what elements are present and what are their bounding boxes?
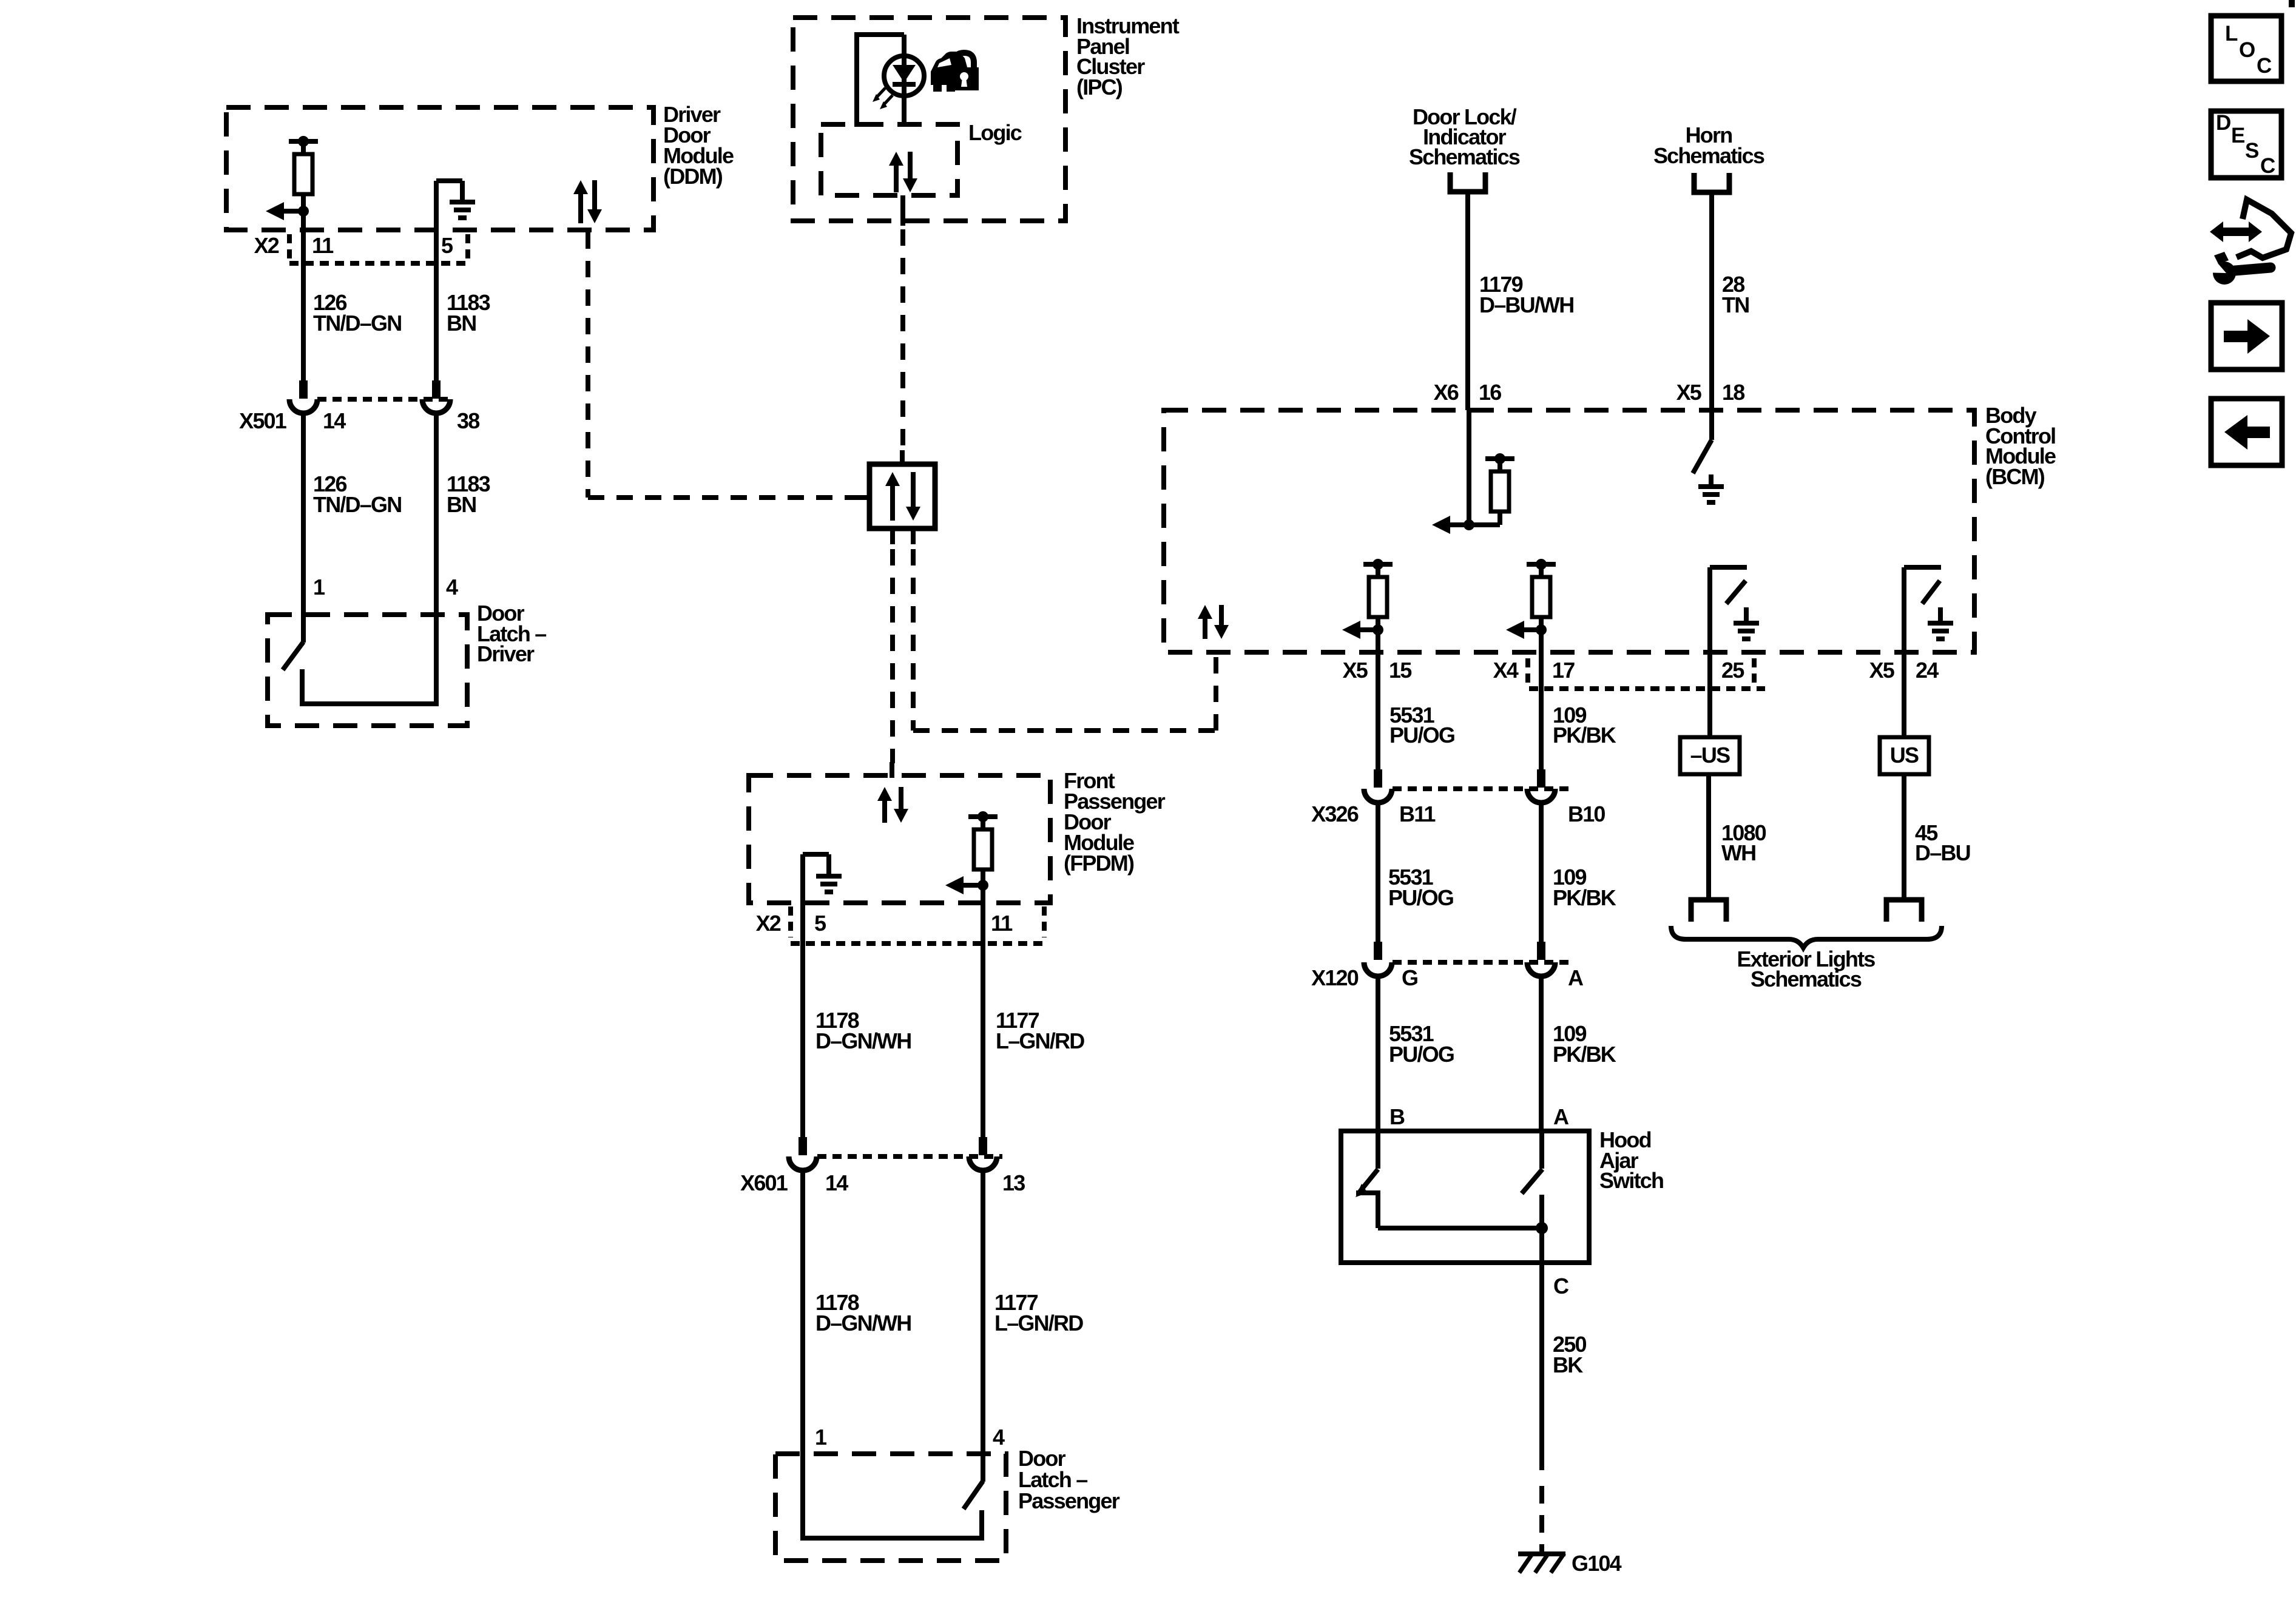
svg-text:PU/OG: PU/OG [1388, 885, 1453, 910]
junction dot FPDM [977, 880, 988, 891]
svg-text:4: 4 [446, 575, 458, 599]
connector X120 dotted mating line [1393, 960, 1574, 965]
car with lock indicator icon [931, 52, 968, 85]
serial data arrows in DDM [573, 180, 588, 194]
svg-text:BN: BN [447, 492, 476, 517]
wire resistor to junction pin 17 [1539, 616, 1544, 630]
connector X326 B10 cup [1527, 789, 1555, 803]
svg-text:TN/D–GN: TN/D–GN [313, 492, 401, 517]
serial data arrows in BCM [1198, 605, 1212, 619]
svg-text:O: O [2239, 38, 2255, 62]
off-page bracket 45 [1886, 900, 1922, 922]
serial data stub to data-link box top [900, 450, 905, 464]
ground symbol in FPDM [800, 854, 805, 903]
svg-text:–US: –US [1690, 743, 1730, 768]
svg-text:L: L [2225, 22, 2238, 46]
svg-text:5: 5 [814, 911, 826, 936]
svg-text:13: 13 [1002, 1170, 1025, 1195]
connector X501 pin 14 male pin [299, 380, 308, 399]
svg-text:X601: X601 [740, 1170, 788, 1195]
diagnostic icon wrench [2213, 262, 2236, 285]
Driver Door Module (DDM) dashed box [226, 107, 653, 230]
svg-text:Schematics: Schematics [1653, 143, 1764, 168]
wire 109 PK/BK lower [1539, 976, 1544, 1131]
serial data dashed line from DDM down [586, 232, 590, 498]
wire to BCM pull-up resistor [1469, 522, 1500, 527]
connector X120 A cup [1527, 962, 1555, 976]
junction dot BCM pin 16 [1464, 519, 1474, 530]
ground symbol in DDM [434, 181, 439, 399]
connector X501 pin 14 cup [289, 399, 317, 413]
Instrument Panel Cluster (IPC) dashed box [793, 18, 1065, 221]
signal arrow DDM pin 11 [266, 202, 284, 220]
svg-text:PK/BK: PK/BK [1553, 1042, 1616, 1067]
horn switch blade BCM [1693, 440, 1712, 473]
data link box bottom stubs [890, 528, 895, 544]
off-page bracket 1080 [1691, 900, 1726, 922]
wire 5531 PU/OG lower [1376, 976, 1380, 1131]
svg-text:X2: X2 [254, 233, 279, 258]
connector X501 pin 38 male pin [432, 380, 441, 399]
ground G104 [1518, 1551, 1565, 1556]
svg-text:(IPC): (IPC) [1076, 75, 1123, 100]
connector X601 dotted mating line [817, 1154, 1002, 1159]
svg-text:14: 14 [825, 1170, 848, 1195]
LOC navigation box [2211, 16, 2281, 81]
door latch driver switch blade [283, 642, 303, 670]
junction dot BCM pin 15 [1373, 624, 1383, 635]
svg-text:4: 4 [993, 1425, 1005, 1450]
wire BCM pin 24 to US [1902, 655, 1906, 737]
connector X601 pin 13 cup [969, 1156, 997, 1170]
hood switch wire B [1376, 1131, 1380, 1169]
svg-text:C: C [2260, 154, 2275, 178]
door latch passenger fixed contact [979, 1510, 984, 1538]
signal arrow FPDM pin 11 [945, 876, 964, 894]
svg-text:Schematics: Schematics [1751, 967, 1862, 991]
connector X501 pin 38 cup [422, 399, 450, 413]
pull-up resistor BCM pin 16 [1485, 456, 1514, 461]
svg-text:Logic: Logic [968, 120, 1022, 145]
ground symbol horn switch BCM [1709, 474, 1714, 487]
wire DDM pin 11 to connector X501 pin 14 [301, 194, 306, 380]
svg-text:S: S [2245, 139, 2258, 163]
Front Passenger Door Module (FPDM) dashed box [749, 775, 1050, 903]
svg-text:(BCM): (BCM) [1985, 464, 2045, 489]
switch BCM pin 25 blade [1726, 581, 1746, 604]
next page arrow [2224, 319, 2270, 354]
svg-text:(DDM): (DDM) [663, 164, 723, 189]
serial dashed line to BCM (down) [911, 549, 916, 731]
svg-text:17: 17 [1552, 658, 1575, 683]
DESC navigation box [2211, 111, 2281, 178]
Body Control Module (BCM) dashed box [1164, 410, 1974, 652]
serial data dashed line from IPC down [900, 229, 905, 450]
connector X501 dotted mating line [317, 397, 454, 402]
connector X326 dotted mating line [1393, 786, 1574, 791]
ground symbol BCM pin 25 [1744, 607, 1749, 623]
Door Latch Driver dashed box [268, 615, 467, 726]
switch BCM pin 24 wire [1902, 567, 1906, 737]
wire 1178 D-GN/WH lower [800, 1170, 805, 1538]
connector X120 A male pin [1537, 942, 1545, 960]
wire 45 D-BU [1902, 774, 1906, 899]
wire pin 16 into BCM [1467, 410, 1471, 525]
svg-text:X5: X5 [1869, 658, 1895, 683]
svg-text:Passenger: Passenger [1018, 1488, 1120, 1513]
svg-text:WH: WH [1721, 840, 1755, 865]
svg-text:B10: B10 [1568, 802, 1605, 826]
connector X326 B11 male pin [1374, 769, 1382, 788]
serial data arrows in FPDM [877, 787, 892, 801]
hood switch fixed contact A [1539, 1195, 1544, 1228]
wire 1178 D-GN/WH upper [800, 903, 805, 1137]
svg-text:Driver: Driver [477, 641, 535, 666]
serial data arrows in Logic box [889, 152, 903, 166]
indicator LED [884, 56, 924, 96]
junction dot BCM pin 17 [1536, 624, 1547, 635]
indicator LED wiring in IPC [857, 32, 904, 37]
junction dot DDM [298, 206, 309, 217]
data link connector box [869, 464, 935, 528]
svg-text:D–BU/WH: D–BU/WH [1479, 292, 1573, 317]
Hood Ajar Switch box [1341, 1131, 1589, 1263]
US box [1880, 737, 1929, 774]
wire 1177 L-GN/RD lower [981, 1170, 985, 1482]
svg-text:G: G [1402, 965, 1417, 990]
svg-text:X326: X326 [1311, 802, 1359, 826]
svg-text:16: 16 [1479, 380, 1501, 405]
serial stub into FPDM [890, 762, 894, 778]
connector X120 G cup [1364, 962, 1392, 976]
connector X4 dotted bracket [1525, 658, 1530, 686]
svg-text:C: C [1553, 1274, 1569, 1298]
wire BCM pin 25 to -US [1707, 655, 1712, 737]
Door Lock/Indicator off-page bracket [1450, 172, 1485, 192]
wire 1179 D-BU/WH [1465, 192, 1470, 410]
wire 109 PK/BK mid [1539, 803, 1544, 942]
svg-text:PK/BK: PK/BK [1553, 723, 1616, 748]
svg-text:A: A [1553, 1104, 1569, 1129]
svg-text:PU/OG: PU/OG [1389, 1042, 1454, 1067]
pull-up resistor BCM pin 15 [1363, 562, 1393, 567]
svg-text:D: D [2216, 111, 2230, 135]
previous page arrow box [2211, 399, 2282, 465]
svg-text:A: A [1568, 965, 1584, 990]
svg-text:38: 38 [457, 408, 479, 433]
resistor in FPDM (door ajar input pull-up) [968, 814, 998, 819]
svg-text:TN: TN [1722, 292, 1749, 317]
svg-text:1: 1 [815, 1425, 827, 1450]
wire 1183 BN to door latch [434, 413, 439, 704]
wire FPDM resistor to pin 11 [981, 869, 985, 903]
svg-text:D–BU: D–BU [1915, 840, 1970, 865]
wire BCM pin 15 down [1376, 630, 1380, 769]
hood switch common bar [1378, 1226, 1542, 1230]
serial dashed line to BCM (across) [913, 728, 1216, 733]
svg-text:B11: B11 [1399, 802, 1436, 826]
wire 28 TN [1709, 192, 1714, 410]
connector X601 pin 14 male pin [799, 1137, 807, 1155]
svg-text:1: 1 [313, 575, 325, 599]
wire 5531 PU/OG mid [1376, 803, 1380, 942]
LED light emission arrows [876, 88, 885, 98]
svg-text:US: US [1890, 743, 1919, 768]
svg-text:X2: X2 [756, 911, 781, 936]
wire 250 dashed to ground [1539, 1486, 1544, 1553]
junction dot hood switch [1536, 1222, 1548, 1234]
svg-text:5: 5 [441, 233, 453, 258]
svg-text:15: 15 [1389, 658, 1412, 683]
svg-text:X4: X4 [1493, 658, 1519, 683]
door latch passenger switch blade [964, 1481, 983, 1509]
svg-text:D–GN/WH: D–GN/WH [815, 1028, 911, 1053]
wire resistor to junction pin 15 [1376, 616, 1380, 630]
wire 126 TN/D-GN to door latch [301, 413, 306, 643]
svg-text:14: 14 [323, 408, 346, 433]
hood switch blade B [1360, 1169, 1378, 1192]
svg-text:X501: X501 [239, 408, 287, 433]
hood switch fixed contact B [1356, 1190, 1380, 1195]
pull-up resistor BCM pin 17 [1527, 562, 1556, 567]
svg-text:L–GN/RD: L–GN/RD [994, 1311, 1083, 1335]
wire 1080 WH [1706, 774, 1711, 899]
svg-text:BK: BK [1553, 1352, 1583, 1377]
signal arrow BCM pin 16 [1432, 516, 1450, 534]
resistor in DDM (door ajar input pull-up) [289, 139, 318, 144]
serial data stub into data-link box left [853, 495, 869, 500]
svg-text:PU/OG: PU/OG [1389, 723, 1454, 748]
svg-text:G104: G104 [1572, 1551, 1622, 1576]
page corner mark [2289, 0, 2295, 7]
connector X601 pin 14 cup [789, 1156, 817, 1170]
svg-text:11: 11 [991, 911, 1013, 936]
svg-text:TN/D–GN: TN/D–GN [313, 311, 401, 336]
connector X120 G male pin [1374, 942, 1382, 960]
svg-text:25: 25 [1721, 658, 1744, 683]
connector X2 DDM dotted bracket [287, 234, 292, 259]
signal arrow BCM pin 17 [1506, 621, 1524, 639]
diagnostic icon part outline [2237, 200, 2291, 258]
serial dashed line to FPDM [890, 549, 895, 763]
signal arrow BCM pin 15 [1342, 621, 1360, 639]
svg-text:B: B [1389, 1104, 1405, 1129]
svg-text:PK/BK: PK/BK [1553, 885, 1616, 910]
connector X326 B10 male pin [1537, 769, 1545, 788]
-US box [1680, 737, 1740, 774]
horn switch wire in BCM [1709, 410, 1714, 440]
Horn off-page bracket [1694, 173, 1729, 192]
connector X326 B11 cup [1364, 789, 1392, 803]
hood switch wire to pin C [1539, 1228, 1544, 1263]
svg-text:E: E [2231, 124, 2244, 147]
svg-text:(FPDM): (FPDM) [1064, 851, 1134, 876]
data link connector arrows [885, 472, 900, 486]
serial data wire from Logic to IPC edge [900, 195, 905, 226]
switch BCM pin 25 wire [1707, 567, 1712, 737]
ground symbol BCM pin 24 [1938, 607, 1943, 623]
hood switch blade A [1522, 1169, 1542, 1193]
previous page arrow [2224, 415, 2270, 450]
svg-text:Switch: Switch [1599, 1168, 1663, 1193]
svg-text:Schematics: Schematics [1409, 144, 1520, 169]
switch BCM pin 24 blade [1922, 581, 1940, 604]
svg-text:11: 11 [312, 233, 334, 258]
svg-text:X5: X5 [1676, 380, 1702, 405]
next page arrow box [2211, 303, 2282, 370]
Logic dashed box in IPC [821, 124, 957, 195]
serial data dashed line DDM to data-link box [588, 495, 856, 500]
svg-text:18: 18 [1722, 380, 1744, 405]
serial dashed line to BCM (up) [1214, 655, 1218, 731]
svg-text:L–GN/RD: L–GN/RD [996, 1028, 1084, 1053]
door latch driver fixed contact [300, 669, 305, 704]
svg-text:X5: X5 [1343, 658, 1368, 683]
wire 1177 L-GN/RD upper [981, 903, 985, 1137]
svg-text:C: C [2257, 54, 2272, 78]
connector X601 pin 13 male pin [979, 1137, 987, 1155]
hood switch wire A [1539, 1131, 1544, 1169]
underbrace exterior lights [1671, 926, 1942, 948]
svg-text:X6: X6 [1434, 380, 1459, 405]
connector X2 FPDM dotted bracket [788, 906, 793, 937]
svg-text:D–GN/WH: D–GN/WH [815, 1311, 911, 1335]
Door Latch Passenger dashed box [775, 1454, 1006, 1561]
svg-text:BN: BN [447, 311, 476, 336]
wire 250 BK [1539, 1263, 1544, 1470]
diagnostic icon double arrow [2210, 221, 2262, 242]
wire BCM pin 17 down [1539, 630, 1544, 769]
svg-text:24: 24 [1916, 658, 1939, 683]
svg-text:X120: X120 [1311, 965, 1359, 990]
